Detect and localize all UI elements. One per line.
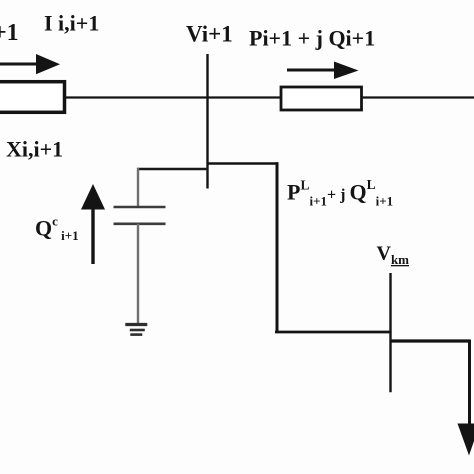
- svg-text:Vi+1: Vi+1: [186, 21, 233, 46]
- bus Vi+1: [206, 54, 208, 189]
- wire Vkm bus to right corner: [391, 339, 470, 342]
- wire right corner down: [468, 340, 471, 425]
- svg-text:Pi+1 + j Qi+1: Pi+1 + j Qi+1: [249, 26, 375, 51]
- svg-text:Vkm: Vkm: [377, 243, 410, 268]
- svg-text:Qc i+1: Qc i+1: [35, 214, 79, 244]
- power flow arrow Pi+1 + j Qi+1: [287, 62, 359, 80]
- wire load corner to Vkm bus: [275, 331, 391, 334]
- capacitor top lead: [137, 168, 139, 207]
- svg-text:PLi+1+ j QLi+1: PLi+1+ j QLi+1: [287, 177, 393, 209]
- wire bus to load corner: [209, 162, 279, 165]
- svg-text:I i,i+1: I i,i+1: [44, 11, 99, 36]
- svg-text:Xi,i+1: Xi,i+1: [6, 137, 63, 162]
- wire resistor1 to resistor2: [64, 96, 282, 98]
- svg-text:+1: +1: [0, 20, 19, 46]
- wire resistor2 to right edge: [362, 96, 474, 98]
- load arrowhead down: [458, 424, 474, 456]
- resistor 2 (right series impedance): [281, 87, 362, 110]
- current arrow I i,i+1: [0, 54, 60, 74]
- bus Vkm: [389, 273, 391, 392]
- capacitor bottom lead: [137, 224, 139, 323]
- reactive power arrow Qc i+1: [81, 184, 105, 264]
- capacitor C plates: [114, 207, 166, 224]
- wire bus to capacitor: [137, 168, 209, 170]
- wire load corner down: [276, 162, 279, 332]
- ground: [125, 325, 147, 335]
- resistor Ri,i+1 (left series impedance): [0, 82, 65, 113]
